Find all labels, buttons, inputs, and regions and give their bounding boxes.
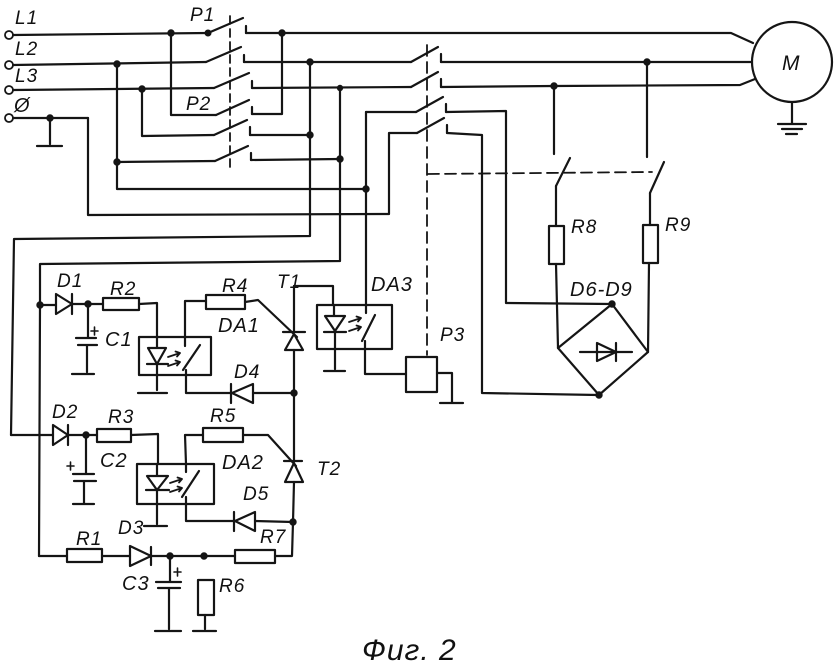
wire D2 row xyxy=(11,434,53,436)
DA1 switch xyxy=(183,337,200,375)
node L1 tap xyxy=(168,30,173,35)
contact P3.5 xyxy=(556,158,570,186)
svg-text:R8: R8 xyxy=(571,217,597,238)
wire R9 to bridge xyxy=(648,263,649,352)
svg-text:P3: P3 xyxy=(440,325,465,346)
DA2 LED xyxy=(146,464,169,504)
svg-text:D5: D5 xyxy=(243,484,269,505)
node C2 tap xyxy=(83,432,88,437)
wire R8 to bridge xyxy=(556,264,558,348)
wire neutral xyxy=(13,117,88,119)
svg-text:P1: P1 xyxy=(190,5,215,26)
node neutral ground tap xyxy=(47,115,52,120)
wire P2.1 out xyxy=(252,33,282,114)
wire neutral to P3 contact xyxy=(88,118,417,215)
label P2 xyxy=(186,94,211,115)
node C xyxy=(338,86,342,90)
resistor R1 xyxy=(67,529,102,562)
wire L3 xyxy=(13,88,214,90)
wire D1 row xyxy=(40,304,56,306)
wire DA3 to P3 coil xyxy=(365,349,406,374)
terminal L2 xyxy=(5,39,38,69)
wire bottom row left xyxy=(39,555,67,557)
svg-text:R2: R2 xyxy=(110,279,136,300)
node C1 tap xyxy=(85,301,90,306)
wire D2 to R3 xyxy=(68,434,97,436)
ground DA1 led xyxy=(138,375,167,393)
svg-text:C1: C1 xyxy=(105,329,133,351)
svg-text:L1: L1 xyxy=(15,8,38,29)
wire D4 to T1 anode xyxy=(253,392,294,394)
ground R6 xyxy=(193,615,216,631)
wire R1 to D3 xyxy=(102,555,130,557)
DA3 arrows xyxy=(349,317,361,332)
node R8 tap xyxy=(551,83,556,88)
svg-text:R3: R3 xyxy=(108,407,134,428)
capacitor C2 xyxy=(67,435,128,504)
wire P2.2 out xyxy=(250,134,310,136)
wire R5 to T2 gate xyxy=(243,435,296,466)
node B5 xyxy=(307,132,312,137)
wire R9 branch top xyxy=(646,62,648,157)
dashed link P3 horizontal xyxy=(428,172,652,174)
wire D1 to R2 xyxy=(72,303,103,305)
wire DA1 collector to R4 xyxy=(185,301,206,337)
resistor R6 xyxy=(198,576,245,615)
wire R8 branch top xyxy=(553,86,555,154)
svg-text:L2: L2 xyxy=(15,39,38,60)
svg-text:D3: D3 xyxy=(118,518,144,539)
terminal L1 xyxy=(5,8,38,39)
wire P3.4 out to bridge bottom xyxy=(447,133,598,395)
wire P3.3 lead xyxy=(366,111,416,113)
diode D4 xyxy=(231,362,260,403)
wire L3out down to control xyxy=(40,88,340,305)
ground DA2 led xyxy=(144,504,167,526)
node DA3 feed xyxy=(363,186,368,191)
node T2 anode xyxy=(290,519,295,524)
dashed link P3 vertical xyxy=(426,45,428,355)
resistor R2 xyxy=(103,279,139,310)
terminal L3 xyxy=(5,66,38,94)
ground motor xyxy=(778,102,806,134)
wire DA3 switch feed xyxy=(365,112,367,305)
svg-text:P2: P2 xyxy=(186,94,211,115)
wire DA2 collector to R5 xyxy=(185,435,203,464)
wire L1 to P2.1 xyxy=(171,33,216,115)
wire L3 to P2.2 xyxy=(142,89,214,136)
svg-text:R5: R5 xyxy=(210,406,236,427)
node T1 anode xyxy=(291,390,296,395)
node A xyxy=(279,30,284,35)
node L3 tap xyxy=(139,86,144,91)
svg-text:R6: R6 xyxy=(219,576,245,597)
svg-text:L3: L3 xyxy=(15,66,38,87)
wire phase A to motor xyxy=(246,33,753,43)
svg-text:D2: D2 xyxy=(52,402,78,423)
wire phase B to motor xyxy=(441,61,752,63)
svg-text:R9: R9 xyxy=(665,215,691,236)
contact P3.1 xyxy=(411,47,441,62)
node row6 tap xyxy=(114,159,119,164)
wire L2 tap down xyxy=(117,64,366,189)
wire contact to R9 xyxy=(649,193,651,225)
ground P3 xyxy=(440,402,463,404)
wire D3 to R7 xyxy=(151,555,235,557)
svg-text:C3: C3 xyxy=(122,573,150,595)
label D3 xyxy=(118,518,144,539)
wire R2 to DA1 xyxy=(139,303,157,337)
thyristor T2 xyxy=(284,393,341,522)
wire T1 to DA3 xyxy=(294,286,333,305)
thyristor T1 xyxy=(277,272,305,393)
contact P3.2 xyxy=(411,72,441,87)
wire D5 to T2 anode xyxy=(255,521,293,522)
svg-text:DA2: DA2 xyxy=(222,452,264,474)
DA2 arrows xyxy=(170,478,182,493)
wire R4 to T1 gate xyxy=(245,300,297,337)
wire DA1 emitter to D4 xyxy=(186,375,231,393)
wire T2 to R7 xyxy=(275,522,293,556)
diode D1 xyxy=(56,271,83,314)
wire L1 xyxy=(13,33,208,35)
wire L2 xyxy=(13,62,206,65)
diode D3 xyxy=(130,546,151,566)
DA1 arrows xyxy=(168,352,180,367)
bridge D6-D9 xyxy=(558,279,648,398)
contact P2.1 xyxy=(216,100,252,115)
contact P2.2 xyxy=(214,120,250,135)
wire contact to R8 xyxy=(555,186,557,226)
node C3 tap xyxy=(167,553,172,558)
svg-text:DA3: DA3 xyxy=(371,274,413,296)
svg-text:Фиг. 2: Фиг. 2 xyxy=(362,634,457,667)
ground DA3 led xyxy=(324,349,345,371)
node C tap xyxy=(337,156,342,161)
ground mains xyxy=(37,118,62,146)
node L2 tap xyxy=(114,61,119,66)
wire DA2 emitter to D5 xyxy=(186,504,234,521)
contact P3.3 xyxy=(416,97,446,112)
svg-text:D6-D9: D6-D9 xyxy=(570,279,633,301)
capacitor C1 xyxy=(72,304,133,374)
optocoupler DA1 xyxy=(139,315,260,375)
contact P1.3 xyxy=(214,73,252,88)
svg-text:D4: D4 xyxy=(234,362,260,383)
motor M xyxy=(752,22,832,102)
wire phase C to P3 contact xyxy=(252,87,411,88)
capacitor C3 xyxy=(122,556,181,631)
wire L2out down to control xyxy=(11,62,310,435)
contact P2.3 xyxy=(215,146,251,161)
resistor R9 xyxy=(643,215,691,263)
DA3 switch xyxy=(362,305,375,349)
terminal neutral xyxy=(5,95,31,122)
wire P2.3 out xyxy=(251,159,340,160)
svg-text:M: M xyxy=(782,52,801,75)
svg-text:T2: T2 xyxy=(317,459,341,480)
svg-text:DA1: DA1 xyxy=(218,315,260,337)
svg-text:Ø: Ø xyxy=(13,95,31,117)
node D1 row xyxy=(37,302,42,307)
resistor R4 xyxy=(206,276,248,309)
wire row6 lead xyxy=(117,161,215,162)
svg-text:R7: R7 xyxy=(260,527,287,548)
svg-text:T1: T1 xyxy=(277,272,301,293)
optocoupler DA2 xyxy=(137,452,264,504)
resistor R8 xyxy=(549,217,597,264)
DA3 LED xyxy=(324,305,346,349)
wire phase C to motor xyxy=(441,79,755,87)
DA1 LED xyxy=(147,337,168,375)
contact P1.2 xyxy=(206,47,244,62)
wire phase B to P3 contact xyxy=(244,61,411,63)
DA2 switch xyxy=(182,464,199,504)
diode D2 xyxy=(52,402,78,445)
label P1 xyxy=(190,5,215,26)
wire P3 to ground xyxy=(437,373,452,402)
resistor R3 xyxy=(97,407,134,442)
node R6 tap xyxy=(201,553,206,558)
svg-text:D1: D1 xyxy=(57,271,83,292)
contact P3.6 xyxy=(650,162,664,193)
contact P3.4 xyxy=(417,118,447,133)
node R9 tap xyxy=(644,59,649,64)
resistor R5 xyxy=(203,406,243,442)
wire R3 to DA2 xyxy=(131,434,158,464)
relay coil P3 xyxy=(406,325,465,392)
optocoupler DA3 xyxy=(317,274,413,349)
resistor R7 xyxy=(235,527,287,563)
contact P1.1 xyxy=(206,18,246,35)
diode D5 xyxy=(234,484,269,531)
wire P3.3 out to bridge top xyxy=(446,111,611,304)
node B xyxy=(307,59,312,64)
caption xyxy=(362,634,457,667)
svg-text:C2: C2 xyxy=(100,450,128,472)
svg-text:R1: R1 xyxy=(76,529,102,550)
dashed link P1 P2 xyxy=(229,16,231,168)
wire left rail down xyxy=(39,305,40,556)
svg-text:R4: R4 xyxy=(222,276,248,297)
